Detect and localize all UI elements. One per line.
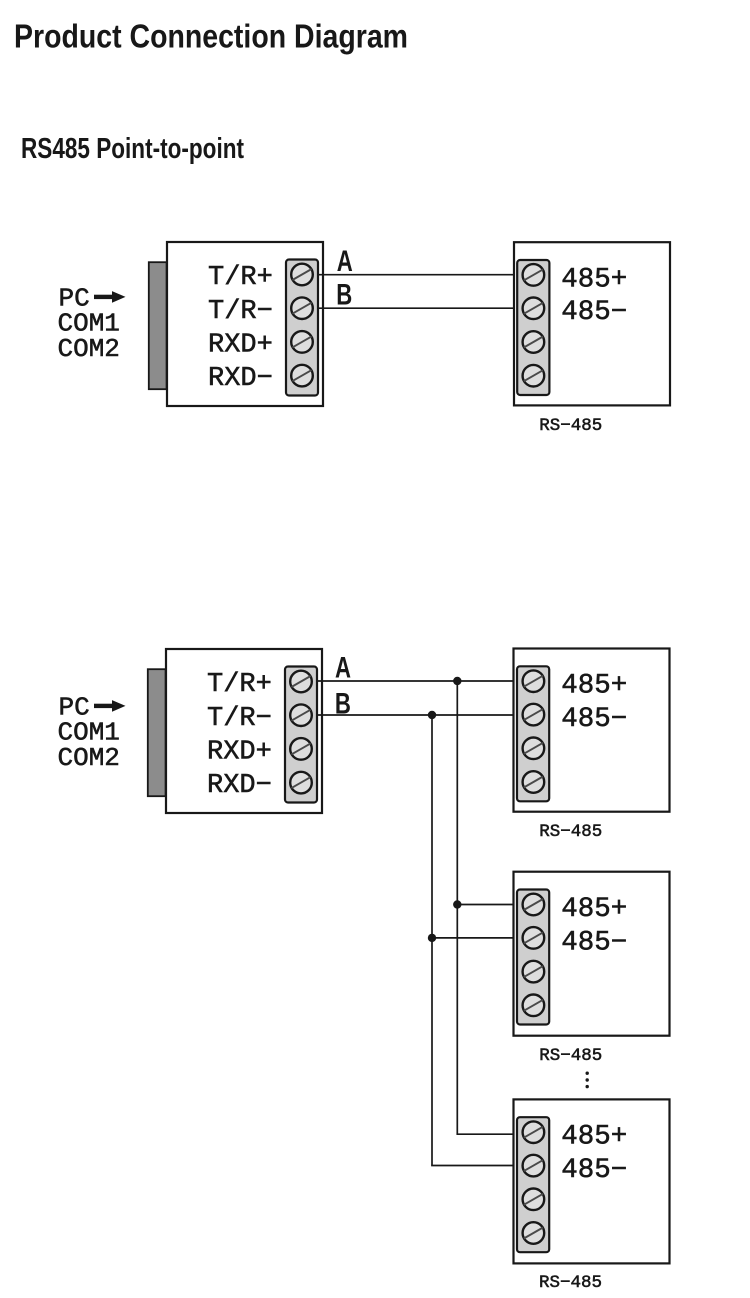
arrow from PC to connector	[94, 700, 126, 712]
svg-text:B: B	[336, 278, 352, 311]
screw terminal TB2-1	[523, 264, 545, 286]
wire A (diagram 1)	[318, 274, 517, 276]
svg-text:T/R+: T/R+	[207, 670, 272, 700]
svg-text:A: A	[337, 245, 353, 278]
screw terminal TB4-4	[523, 771, 545, 793]
svg-text:RS−485: RS−485	[539, 416, 602, 436]
svg-text:485−: 485−	[561, 704, 627, 735]
screw terminal TB1-1	[291, 264, 313, 286]
svg-text:RXD+: RXD+	[208, 330, 273, 360]
screw terminal TB2-3	[523, 331, 545, 353]
wire B branch to device 2	[432, 937, 519, 939]
screw terminal TB6-3	[523, 1189, 545, 1211]
screw terminal TB5-1	[523, 894, 545, 916]
screw terminal TB3-1	[290, 671, 312, 693]
junction node B to device 2	[428, 934, 436, 942]
connector J1 (PC serial plug)	[149, 262, 167, 389]
terminal block TB4	[517, 666, 549, 801]
wire B vertical bus	[431, 715, 433, 1166]
terminal block TB2	[517, 260, 549, 395]
svg-text:485+: 485+	[561, 1122, 627, 1153]
screw terminal TB6-1	[523, 1121, 545, 1143]
wire B (diagram 2 horizontal)	[317, 714, 519, 716]
screw terminal TB2-4	[523, 365, 545, 387]
svg-text:RXD−: RXD−	[208, 364, 273, 394]
wire B (diagram 1)	[318, 307, 517, 309]
screw terminal TB4-3	[523, 738, 545, 760]
arrow from PC to connector	[94, 291, 126, 303]
svg-text:RXD+: RXD+	[207, 737, 272, 767]
screw terminal TB1-2	[291, 297, 313, 319]
svg-text:A: A	[335, 652, 351, 685]
screw terminal TB5-4	[523, 995, 545, 1017]
svg-text:COM2: COM2	[58, 334, 120, 364]
RS-485 device box U4 (first)	[514, 649, 670, 812]
svg-text:485−: 485−	[561, 297, 627, 328]
RS-485 device box U5 (second)	[514, 872, 670, 1036]
screw terminal TB6-4	[523, 1222, 545, 1244]
screw terminal TB2-2	[523, 298, 545, 320]
svg-text:485−: 485−	[561, 1155, 627, 1186]
screw terminal TB6-2	[523, 1155, 545, 1177]
svg-text:T/R−: T/R−	[208, 297, 273, 327]
junction node on wire B	[428, 711, 436, 719]
terminal block TB1	[286, 260, 318, 396]
wire A (diagram 2 horizontal)	[317, 680, 519, 682]
svg-text:485+: 485+	[561, 671, 627, 702]
terminal block TB6	[517, 1117, 549, 1252]
svg-text:RXD−: RXD−	[207, 771, 272, 801]
screw terminal TB5-2	[523, 927, 545, 949]
screw terminal TB3-3	[290, 738, 312, 760]
svg-text:RS−485: RS−485	[539, 1046, 602, 1066]
converter box U1	[167, 242, 323, 406]
terminal block TB3	[285, 667, 317, 803]
screw terminal TB3-4	[290, 772, 312, 794]
junction node on wire A	[453, 677, 461, 685]
connector J2 (PC serial plug)	[148, 669, 166, 796]
svg-text:RS485 Point-to-point: RS485 Point-to-point	[21, 133, 244, 165]
converter box U3	[166, 649, 322, 813]
wire A branch to device 3	[456, 1133, 518, 1135]
screw terminal TB1-3	[291, 331, 313, 353]
svg-text:B: B	[335, 687, 351, 720]
screw terminal TB5-3	[523, 961, 545, 983]
screw terminal TB4-2	[523, 704, 545, 726]
svg-text:485−: 485−	[561, 927, 627, 958]
wire A branch to device 2	[457, 904, 518, 906]
screw terminal TB4-1	[523, 670, 545, 692]
RS-485 device box U6 (last)	[514, 1099, 670, 1263]
terminal block TB5	[517, 890, 549, 1025]
svg-text:T/R−: T/R−	[207, 704, 272, 734]
svg-text:T/R+: T/R+	[208, 263, 273, 293]
junction node A to device 2	[453, 900, 461, 908]
wire B branch to device 3	[431, 1165, 518, 1167]
svg-text:485+: 485+	[561, 894, 627, 925]
RS-485 device box U2	[514, 242, 670, 405]
screw terminal TB1-4	[291, 365, 313, 387]
svg-text:485+: 485+	[561, 264, 627, 295]
screw terminal TB3-2	[290, 704, 312, 726]
svg-text:RS−485: RS−485	[539, 822, 602, 842]
svg-text:RS−485: RS−485	[539, 1273, 602, 1293]
ellipsis continuation dots	[586, 1072, 589, 1089]
svg-text:COM2: COM2	[58, 743, 120, 773]
wire A vertical bus	[456, 681, 458, 1134]
svg-text:Product Connection Diagram: Product Connection Diagram	[14, 18, 408, 55]
